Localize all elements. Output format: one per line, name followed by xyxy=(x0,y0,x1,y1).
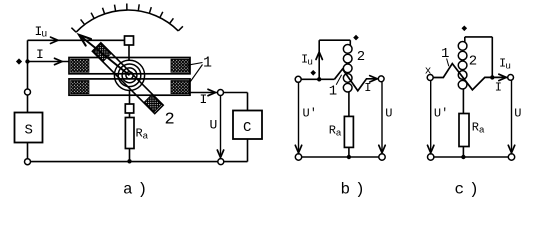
resistor Ra xyxy=(125,118,134,149)
terminal xyxy=(25,159,31,165)
wire to load C xyxy=(224,92,248,94)
b) voltage arrow U' xyxy=(298,82,300,151)
b) voltage coil 2 xyxy=(349,40,351,45)
svg-text:I: I xyxy=(36,47,44,62)
meter scale arc xyxy=(76,10,178,32)
svg-text:u: u xyxy=(505,61,511,72)
moving coil top terminal square xyxy=(125,36,134,45)
load box C xyxy=(233,111,262,140)
svg-text:U': U' xyxy=(434,107,448,121)
wire source to bottom terminal xyxy=(27,143,29,159)
svg-text:a): a) xyxy=(123,181,152,199)
c) bottom terminals xyxy=(428,154,434,160)
terminal U bottom xyxy=(218,159,224,165)
b) left terminal xyxy=(295,76,301,82)
svg-text:a: a xyxy=(143,131,149,142)
c) current coil diagonal (1) xyxy=(433,64,507,90)
svg-text:U': U' xyxy=(303,107,317,121)
svg-text:1: 1 xyxy=(329,84,337,100)
svg-text:U: U xyxy=(210,118,218,133)
b) junction xyxy=(317,77,321,81)
svg-text:I: I xyxy=(495,81,502,95)
bottom wire xyxy=(31,161,218,163)
svg-text:2: 2 xyxy=(165,111,175,130)
terminal U top xyxy=(218,90,224,96)
polarity diamond marker xyxy=(16,58,22,64)
spiral spring of moving coil xyxy=(126,72,133,79)
svg-text:b): b) xyxy=(341,181,370,199)
b) wire Ra to bottom xyxy=(348,147,350,157)
svg-text:2: 2 xyxy=(357,49,365,65)
svg-text:U: U xyxy=(385,107,392,121)
c) voltage arrow U xyxy=(511,80,513,151)
c) voltage coil 2 xyxy=(464,37,466,43)
terminal xyxy=(25,89,31,95)
wire Iu to moving coil xyxy=(28,39,125,41)
b) current coil diagonal (1) xyxy=(334,69,377,91)
b) right terminal xyxy=(378,76,384,82)
fixed coil 1 lower bar xyxy=(69,79,190,95)
c) voltage arrow U' xyxy=(430,81,432,152)
voltage arrow U xyxy=(220,96,222,156)
source box S xyxy=(15,113,43,143)
c) polarity star xyxy=(462,26,468,32)
fixed coil 1 lower bar hatched ends xyxy=(71,81,89,94)
c) left terminal xyxy=(427,75,433,81)
b) polarity star xyxy=(310,70,316,76)
moving coil bottom terminal square xyxy=(125,104,133,113)
c) wire Ra to bottom xyxy=(462,147,464,158)
svg-text:u: u xyxy=(307,56,313,67)
c) Iu vertical wire xyxy=(491,37,493,78)
svg-text:U: U xyxy=(514,107,521,121)
wire Ra to bottom xyxy=(129,149,131,162)
svg-text:a: a xyxy=(479,125,485,136)
b) polarity star coil top xyxy=(353,35,359,41)
c) bottom junction xyxy=(461,155,465,159)
svg-text:1: 1 xyxy=(441,46,449,62)
b) bottom wire xyxy=(302,156,379,158)
c) junction xyxy=(490,75,494,79)
b) voltage arrow U xyxy=(381,82,383,151)
c) top wire to coil xyxy=(465,36,493,38)
b) bottom terminals xyxy=(295,154,301,160)
c) right terminal xyxy=(508,75,514,81)
left vertical wire xyxy=(27,40,29,89)
svg-text:C: C xyxy=(243,120,251,136)
svg-text:I: I xyxy=(364,81,371,95)
b) wire terminal to junction xyxy=(301,78,334,80)
wire I to fixed coil xyxy=(28,61,70,63)
pointer needle xyxy=(81,36,130,75)
c) bottom wire xyxy=(434,156,508,158)
wire to source box xyxy=(27,95,29,113)
c) resistor Ra xyxy=(459,114,469,147)
svg-text:u: u xyxy=(41,29,47,40)
fixed coil 1 upper bar xyxy=(69,58,190,74)
svg-text:S: S xyxy=(25,123,33,139)
fixed coil 1 upper bar hatched ends xyxy=(71,59,89,72)
svg-text:2: 2 xyxy=(469,54,477,70)
svg-text:a: a xyxy=(336,128,342,139)
wire I out of fixed coil xyxy=(190,92,218,94)
junction xyxy=(25,59,29,63)
wire C to bottom xyxy=(247,139,249,162)
wire square to spiral xyxy=(128,45,130,60)
svg-text:c): c) xyxy=(455,181,484,199)
scale tick marks xyxy=(71,28,76,33)
b) bottom junction xyxy=(347,155,351,159)
b) Iu vertical wire xyxy=(318,40,320,79)
moving coil 2 band xyxy=(92,43,163,114)
junction Ra bottom xyxy=(127,159,131,163)
wire spiral to bottom square xyxy=(129,90,131,104)
b) top wire to coil xyxy=(319,39,350,41)
b) resistor Ra xyxy=(344,116,353,147)
wire square to Ra xyxy=(129,113,131,118)
svg-text:1: 1 xyxy=(203,55,212,72)
svg-text:I: I xyxy=(200,92,208,107)
